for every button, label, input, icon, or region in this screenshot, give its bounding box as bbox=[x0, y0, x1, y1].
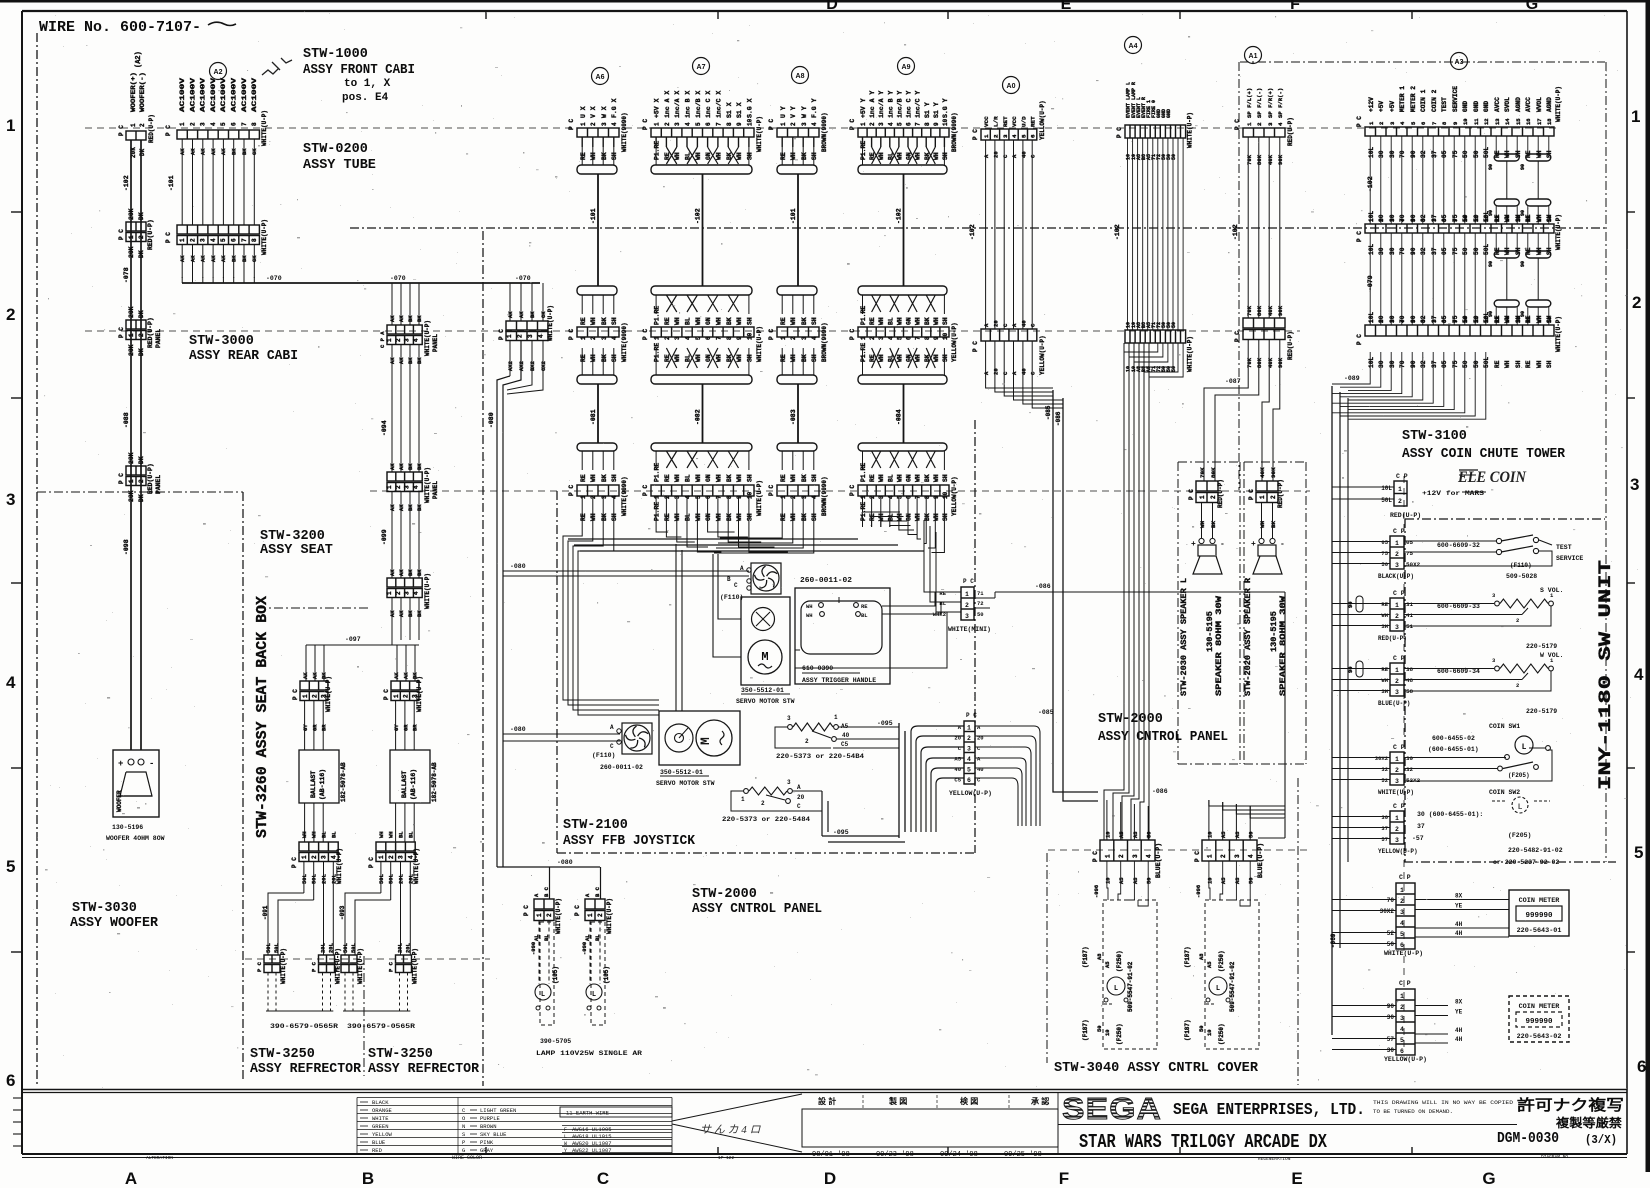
svg-text:30 (600-6455-01):: 30 (600-6455-01): bbox=[1417, 811, 1483, 818]
svg-text:(F187): (F187) bbox=[1184, 1019, 1191, 1041]
svg-text:5: 5 bbox=[1020, 134, 1027, 138]
svg-text:COIN METER: COIN METER bbox=[1519, 1003, 1561, 1011]
svg-text:1: 1 bbox=[1395, 667, 1399, 674]
svg-text:70: 70 bbox=[1387, 897, 1395, 904]
svg-text:182-5078-AB: 182-5078-AB bbox=[431, 762, 438, 802]
svg-text:BROWN: BROWN bbox=[480, 1123, 497, 1130]
svg-text:10: 10 bbox=[1462, 215, 1469, 222]
svg-text:6: 6 bbox=[1420, 122, 1427, 125]
svg-text:ASSY REAR CABI: ASSY REAR CABI bbox=[189, 349, 298, 364]
svg-text:-080: -080 bbox=[510, 563, 526, 570]
svg-text:SERVO MOTOR STW: SERVO MOTOR STW bbox=[736, 698, 795, 705]
svg-text:WH: WH bbox=[1259, 520, 1266, 528]
svg-text:ASSY WOOFER: ASSY WOOFER bbox=[70, 916, 159, 931]
svg-text:70: 70 bbox=[1399, 247, 1406, 255]
svg-text:32: 32 bbox=[1406, 766, 1414, 773]
svg-text:9: 9 bbox=[1452, 320, 1459, 323]
svg-text:BALLAST: BALLAST bbox=[310, 771, 317, 798]
svg-text:BK: BK bbox=[726, 474, 733, 482]
svg-text:RE: RE bbox=[1525, 360, 1532, 368]
svg-text:BK: BK bbox=[407, 569, 414, 576]
svg-text:(F187): (F187) bbox=[1082, 946, 1089, 968]
svg-text:05: 05 bbox=[1441, 360, 1448, 368]
svg-text:1: 1 bbox=[536, 913, 543, 917]
svg-text:YE: YE bbox=[1455, 1009, 1463, 1016]
svg-text:TEST: TEST bbox=[1556, 544, 1572, 551]
svg-text:WH: WH bbox=[915, 152, 922, 160]
svg-text:WHITE(9090): WHITE(9090) bbox=[621, 112, 628, 152]
svg-text:SPEAKER 8OHM 30W: SPEAKER 8OHM 30W bbox=[1214, 595, 1224, 696]
svg-text:AK: AK bbox=[389, 569, 396, 576]
svg-text:C P: C P bbox=[1399, 874, 1411, 881]
svg-text:BL: BL bbox=[330, 831, 337, 838]
svg-text:WH: WH bbox=[806, 612, 813, 619]
svg-text:GR: GR bbox=[402, 724, 409, 731]
svg-text:(F187): (F187) bbox=[1082, 1019, 1089, 1041]
svg-text:50: 50 bbox=[1096, 1025, 1103, 1032]
svg-text:+5V Y: +5V Y bbox=[860, 98, 867, 118]
svg-text:WHITE(U-P): WHITE(U-P) bbox=[261, 110, 268, 146]
svg-text:VCC: VCC bbox=[983, 116, 990, 127]
svg-text:+5V X: +5V X bbox=[654, 98, 661, 118]
svg-text:32: 32 bbox=[1420, 360, 1427, 368]
svg-text:(AB-116): (AB-116) bbox=[319, 769, 326, 800]
svg-text:RET: RET bbox=[1030, 116, 1037, 127]
svg-text:40: 40 bbox=[954, 766, 961, 773]
svg-text:GN: GN bbox=[906, 474, 913, 482]
svg-text:3: 3 bbox=[404, 591, 411, 595]
svg-text:WHITE(U-P): WHITE(U-P) bbox=[555, 898, 562, 934]
svg-text:50L: 50L bbox=[1483, 357, 1490, 368]
svg-text:DK: DK bbox=[138, 348, 145, 356]
svg-text:BK: BK bbox=[924, 474, 931, 482]
svg-text:P C: P C bbox=[498, 329, 505, 340]
svg-text:YELLOW(U-P): YELLOW(U-P) bbox=[951, 322, 958, 362]
svg-text:-102: -102 bbox=[1114, 224, 1121, 240]
svg-text:90: 90 bbox=[1520, 164, 1526, 170]
svg-text:32: 32 bbox=[1420, 247, 1427, 255]
svg-text:1P-122: 1P-122 bbox=[718, 1155, 735, 1161]
svg-text:DK: DK bbox=[138, 456, 145, 464]
svg-text:SH: SH bbox=[1546, 360, 1553, 368]
svg-text:P C: P C bbox=[768, 329, 775, 340]
svg-text:1: 1 bbox=[654, 122, 661, 126]
svg-text:1: 1 bbox=[386, 338, 393, 342]
svg-text:P C: P C bbox=[292, 689, 299, 700]
svg-text:BLACK: BLACK bbox=[372, 1099, 389, 1106]
svg-text:-069: -069 bbox=[1330, 933, 1337, 948]
svg-text:P C: P C bbox=[523, 905, 530, 916]
svg-text:A0: A0 bbox=[1007, 83, 1016, 90]
svg-text:A2: A2 bbox=[214, 69, 223, 76]
svg-text:50: 50 bbox=[1462, 247, 1469, 255]
svg-text:6: 6 bbox=[1420, 320, 1427, 323]
svg-text:STW-3000: STW-3000 bbox=[189, 334, 254, 349]
svg-text:220-5373 or 220-5484: 220-5373 or 220-5484 bbox=[722, 816, 810, 823]
svg-text:(105): (105) bbox=[552, 966, 559, 984]
svg-text:WH: WH bbox=[790, 317, 797, 325]
svg-text:WHITE(U-P): WHITE(U-P) bbox=[413, 848, 420, 884]
svg-text:1: 1 bbox=[393, 694, 400, 698]
svg-text:COIN SW2: COIN SW2 bbox=[1489, 789, 1520, 796]
svg-text:サ ん カ 4 ロ: サ ん カ 4 ロ bbox=[700, 1124, 761, 1136]
svg-text:20K: 20K bbox=[128, 490, 135, 502]
svg-text:ASSY CNTROL PANEL: ASSY CNTROL PANEL bbox=[692, 902, 822, 917]
svg-text:WH: WH bbox=[674, 354, 681, 362]
svg-text:220-5482-91-02: 220-5482-91-02 bbox=[1508, 847, 1563, 854]
svg-text:C P: C P bbox=[1399, 980, 1411, 987]
svg-text:BROWN(9090): BROWN(9090) bbox=[821, 476, 828, 516]
svg-text:P C: P C bbox=[849, 485, 856, 496]
svg-text:4: 4 bbox=[887, 495, 894, 499]
svg-text:W X: W X bbox=[601, 106, 608, 118]
svg-text:BK: BK bbox=[801, 317, 808, 325]
svg-text:390-6579-0565R: 390-6579-0565R bbox=[270, 1023, 339, 1030]
svg-text:GR: GR bbox=[311, 724, 318, 731]
svg-text:8: 8 bbox=[726, 122, 733, 126]
svg-text:E: E bbox=[1291, 1169, 1302, 1188]
svg-text:1: 1 bbox=[130, 123, 137, 127]
svg-text:7: 7 bbox=[715, 495, 722, 499]
svg-text:5: 5 bbox=[1400, 1037, 1404, 1044]
svg-text:WHITE(9090): WHITE(9090) bbox=[621, 476, 628, 516]
svg-text:20: 20 bbox=[797, 794, 805, 801]
svg-text:18: 18 bbox=[1546, 215, 1553, 222]
svg-text:-086: -086 bbox=[1152, 788, 1168, 795]
svg-text:20K: 20K bbox=[128, 246, 135, 258]
svg-text:AK: AK bbox=[518, 311, 525, 318]
svg-text:4: 4 bbox=[1011, 134, 1018, 138]
svg-text:6: 6 bbox=[705, 336, 712, 340]
svg-text:WH: WH bbox=[674, 317, 681, 325]
svg-text:RED(U-P): RED(U-P) bbox=[1217, 479, 1224, 508]
svg-text:THIS DRAWING WILL IN NO WAY BE: THIS DRAWING WILL IN NO WAY BE COPIED bbox=[1373, 1100, 1513, 1106]
svg-text:50L: 50L bbox=[1381, 497, 1392, 504]
svg-text:(F110): (F110) bbox=[720, 594, 743, 601]
svg-text:14: 14 bbox=[1504, 118, 1511, 125]
svg-text:WH: WH bbox=[933, 317, 940, 325]
svg-text:1: 1 bbox=[1400, 993, 1404, 1000]
svg-text:P C: P C bbox=[972, 129, 979, 140]
svg-text:AGND: AGND bbox=[1515, 97, 1522, 112]
svg-text:U X: U X bbox=[580, 106, 587, 118]
svg-text:-57: -57 bbox=[1412, 835, 1424, 842]
svg-text:12: 12 bbox=[1483, 118, 1490, 125]
svg-text:WH: WH bbox=[878, 317, 885, 325]
svg-text:S1 X: S1 X bbox=[736, 102, 743, 118]
svg-text:P C: P C bbox=[118, 473, 125, 484]
svg-text:A8: A8 bbox=[1096, 953, 1103, 960]
svg-text:BK: BK bbox=[726, 513, 733, 521]
svg-text:C: C bbox=[610, 743, 614, 750]
svg-text:2: 2 bbox=[590, 122, 597, 126]
svg-text:WHITE(U-P): WHITE(U-P) bbox=[325, 676, 332, 712]
svg-text:75: 75 bbox=[1381, 550, 1388, 557]
svg-text:AVCC: AVCC bbox=[1494, 97, 1501, 112]
svg-text:WH: WH bbox=[695, 513, 702, 521]
svg-text:5: 5 bbox=[1634, 843, 1643, 862]
svg-text:11: 11 bbox=[1473, 215, 1480, 222]
svg-text:3: 3 bbox=[321, 855, 328, 859]
svg-text:G: G bbox=[1526, 0, 1538, 13]
svg-text:WHITE(U-P): WHITE(U-P) bbox=[756, 326, 763, 362]
svg-text:SH: SH bbox=[611, 152, 618, 160]
svg-text:WH: WH bbox=[933, 513, 940, 521]
svg-text:WH: WH bbox=[933, 354, 940, 362]
svg-text:1: 1 bbox=[860, 122, 867, 126]
svg-text:BLUE(U-P): BLUE(U-P) bbox=[1257, 843, 1264, 878]
svg-text:RE: RE bbox=[869, 474, 876, 482]
svg-text:P C: P C bbox=[568, 329, 575, 340]
svg-text:50: 50 bbox=[1473, 247, 1480, 255]
svg-text:P C: P C bbox=[849, 119, 856, 130]
svg-text:1: 1 bbox=[128, 479, 135, 483]
svg-text:1: 1 bbox=[580, 336, 587, 340]
svg-text:30: 30 bbox=[1389, 360, 1396, 368]
svg-text:WH: WH bbox=[590, 513, 597, 521]
svg-text:1: 1 bbox=[580, 122, 587, 126]
svg-text:4: 4 bbox=[538, 334, 545, 338]
svg-text:B: B bbox=[362, 1169, 374, 1188]
svg-text:90K: 90K bbox=[1270, 467, 1277, 478]
svg-text:4: 4 bbox=[1400, 1026, 1404, 1033]
svg-text:09/23-'98: 09/23-'98 bbox=[876, 1151, 914, 1159]
svg-text:P C: P C bbox=[1188, 489, 1195, 500]
svg-text:12: 12 bbox=[1483, 215, 1490, 222]
svg-text:-091: -091 bbox=[262, 905, 269, 920]
svg-text:WH: WH bbox=[878, 474, 885, 482]
svg-text:SH: SH bbox=[746, 317, 753, 325]
svg-text:-088: -088 bbox=[123, 412, 130, 428]
svg-text:-087: -087 bbox=[1225, 378, 1241, 385]
svg-text:S VOL.: S VOL. bbox=[1540, 587, 1563, 594]
svg-text:220-5373 or 220-54B4: 220-5373 or 220-54B4 bbox=[776, 753, 864, 760]
svg-text:STW-3040 ASSY CNTRL COVER: STW-3040 ASSY CNTRL COVER bbox=[1054, 1061, 1259, 1076]
svg-text:18: 18 bbox=[1546, 118, 1553, 125]
svg-text:BL: BL bbox=[887, 513, 894, 521]
svg-text:BK: BK bbox=[601, 354, 608, 362]
svg-text:3: 3 bbox=[200, 238, 207, 242]
svg-text:2: 2 bbox=[992, 134, 999, 138]
svg-text:-: - bbox=[149, 759, 154, 769]
svg-text:WHITE(U-P): WHITE(U-P) bbox=[1384, 950, 1423, 957]
svg-text:WHITE(U-P): WHITE(U-P) bbox=[424, 573, 431, 609]
svg-text:P C: P C bbox=[1194, 851, 1201, 862]
svg-text:A8: A8 bbox=[1234, 877, 1241, 884]
svg-text:BL: BL bbox=[939, 600, 946, 607]
svg-text:WVOL: WVOL bbox=[1536, 97, 1543, 112]
svg-text:8: 8 bbox=[924, 495, 931, 499]
svg-text:inc A Y: inc A Y bbox=[869, 91, 876, 118]
svg-text:P C: P C bbox=[1356, 334, 1363, 345]
svg-text:2: 2 bbox=[1395, 613, 1399, 620]
svg-text:or 220-5237-92-02: or 220-5237-92-02 bbox=[1493, 859, 1559, 866]
svg-text:7: 7 bbox=[915, 495, 922, 499]
svg-text:S1 X: S1 X bbox=[726, 102, 733, 118]
svg-text:50: 50 bbox=[1473, 360, 1480, 368]
svg-text:+5V: +5V bbox=[1389, 101, 1396, 112]
svg-text:600-6455-02: 600-6455-02 bbox=[1432, 735, 1475, 742]
svg-text:3: 3 bbox=[965, 613, 969, 620]
svg-text:8X: 8X bbox=[1455, 999, 1463, 1006]
svg-text:GN: GN bbox=[705, 317, 712, 325]
svg-text:3: 3 bbox=[801, 336, 808, 340]
svg-text:P C: P C bbox=[118, 327, 125, 338]
svg-text:RED(U-P): RED(U-P) bbox=[1287, 331, 1294, 360]
svg-text:1: 1 bbox=[1398, 486, 1402, 493]
svg-text:W: W bbox=[564, 1141, 567, 1147]
svg-text:2: 2 bbox=[1270, 495, 1277, 499]
svg-text:BK: BK bbox=[1210, 520, 1217, 528]
svg-text:F.G Y: F.G Y bbox=[811, 98, 818, 118]
svg-text:STW-3260 ASSY SEAT BACK BOX: STW-3260 ASSY SEAT BACK BOX bbox=[254, 596, 271, 838]
svg-text:6: 6 bbox=[231, 122, 238, 126]
svg-text:-081: -081 bbox=[590, 409, 597, 425]
svg-text:13: 13 bbox=[1494, 215, 1501, 222]
svg-text:BL: BL bbox=[685, 474, 692, 482]
svg-text:4: 4 bbox=[811, 122, 818, 126]
svg-text:WHITE(MINI): WHITE(MINI) bbox=[948, 626, 991, 633]
svg-text:ASSY TRIGGER HANDLE: ASSY TRIGGER HANDLE bbox=[802, 677, 876, 684]
svg-text:7: 7 bbox=[1431, 219, 1438, 222]
svg-text:10: 10 bbox=[1206, 1029, 1213, 1036]
svg-text:90: 90 bbox=[1520, 261, 1526, 267]
svg-text:999990: 999990 bbox=[1525, 912, 1553, 920]
svg-text:P C: P C bbox=[311, 961, 318, 972]
svg-text:7: 7 bbox=[1431, 320, 1438, 323]
svg-text:WH: WH bbox=[1381, 677, 1388, 684]
svg-text:F: F bbox=[1290, 0, 1300, 13]
svg-text:20L: 20L bbox=[405, 942, 412, 953]
svg-text:10: 10 bbox=[1206, 877, 1213, 884]
svg-text:複製等厳禁: 複製等厳禁 bbox=[1555, 1115, 1622, 1130]
svg-text:BK: BK bbox=[416, 569, 423, 576]
svg-text:10: 10 bbox=[1104, 877, 1111, 884]
svg-text:AK: AK bbox=[389, 315, 396, 322]
svg-text:3: 3 bbox=[878, 336, 885, 340]
svg-text:8: 8 bbox=[726, 336, 733, 340]
svg-text:50: 50 bbox=[1171, 322, 1177, 328]
svg-text:2: 2 bbox=[138, 479, 145, 483]
svg-text:-078: -078 bbox=[123, 267, 130, 283]
svg-text:RE: RE bbox=[1494, 360, 1501, 368]
svg-text:RED(U-P): RED(U-P) bbox=[147, 463, 154, 494]
svg-text:-082: -082 bbox=[695, 409, 702, 425]
svg-text:LAMP 110V25W SINGLE AR: LAMP 110V25W SINGLE AR bbox=[536, 1050, 642, 1057]
svg-text:WHITE(U-P): WHITE(U-P) bbox=[424, 320, 431, 356]
svg-text:RE: RE bbox=[664, 513, 671, 521]
svg-text:40K: 40K bbox=[1267, 305, 1274, 316]
svg-text:BL: BL bbox=[861, 612, 868, 619]
svg-text:COIN 2: COIN 2 bbox=[1431, 89, 1438, 112]
svg-text:P C: P C bbox=[574, 905, 581, 916]
svg-text:ALTERATION: ALTERATION bbox=[146, 1155, 173, 1161]
svg-text:A5: A5 bbox=[1220, 877, 1227, 884]
svg-text:GREEN: GREEN bbox=[372, 1123, 389, 1130]
svg-text:RE: RE bbox=[780, 354, 787, 362]
svg-text:260-0011-02: 260-0011-02 bbox=[600, 764, 643, 771]
svg-text:SH: SH bbox=[611, 354, 618, 362]
svg-text:70K: 70K bbox=[1246, 305, 1253, 316]
svg-text:50: 50 bbox=[1381, 561, 1388, 568]
svg-text:COIN SW1: COIN SW1 bbox=[1489, 723, 1520, 730]
svg-text:SH: SH bbox=[746, 152, 753, 160]
svg-text:BK: BK bbox=[801, 474, 808, 482]
svg-text:DK: DK bbox=[139, 148, 146, 156]
svg-text:-: - bbox=[1280, 540, 1285, 549]
svg-text:GRAY: GRAY bbox=[480, 1147, 494, 1154]
svg-text:10: 10 bbox=[1462, 316, 1469, 323]
svg-text:3: 3 bbox=[1132, 854, 1139, 858]
svg-text:SERVICE: SERVICE bbox=[1556, 555, 1583, 562]
svg-text:WH: WH bbox=[674, 513, 681, 521]
svg-text:50: 50 bbox=[977, 611, 984, 618]
svg-text:5: 5 bbox=[6, 857, 15, 876]
svg-text:2: 2 bbox=[395, 591, 402, 595]
svg-text:SH: SH bbox=[811, 152, 818, 160]
svg-text:WH: WH bbox=[674, 474, 681, 482]
svg-text:16: 16 bbox=[1525, 316, 1532, 323]
svg-text:C P: C P bbox=[1393, 590, 1405, 597]
svg-text:WH: WH bbox=[790, 354, 797, 362]
svg-text:72: 72 bbox=[977, 600, 984, 607]
svg-text:1: 1 bbox=[1246, 122, 1253, 126]
svg-text:15: 15 bbox=[1515, 118, 1522, 125]
svg-text:A4: A4 bbox=[1129, 43, 1138, 50]
svg-text:SH: SH bbox=[811, 474, 818, 482]
svg-text:RED(U-P): RED(U-P) bbox=[1390, 512, 1421, 519]
svg-text:37: 37 bbox=[1431, 360, 1438, 368]
svg-text:WH: WH bbox=[896, 152, 903, 160]
svg-text:4: 4 bbox=[811, 495, 818, 499]
svg-text:STW-3200: STW-3200 bbox=[260, 529, 325, 544]
svg-text:A5: A5 bbox=[1118, 877, 1125, 884]
svg-text:S1 Y: S1 Y bbox=[933, 102, 940, 118]
svg-text:WHITE(U-P): WHITE(U-P) bbox=[756, 116, 763, 152]
svg-text:9: 9 bbox=[736, 122, 743, 126]
svg-text:1: 1 bbox=[1631, 107, 1640, 126]
svg-text:(F250): (F250) bbox=[1116, 1023, 1123, 1045]
svg-text:9: 9 bbox=[736, 495, 743, 499]
svg-text:ASSY FRONT CABI: ASSY FRONT CABI bbox=[303, 63, 415, 78]
svg-text:STW-2000: STW-2000 bbox=[1098, 712, 1163, 727]
svg-text:1: 1 bbox=[1400, 887, 1404, 894]
svg-text:5: 5 bbox=[896, 336, 903, 340]
svg-text:509-5547-91-02: 509-5547-91-02 bbox=[1229, 961, 1236, 1012]
svg-text:3: 3 bbox=[674, 122, 681, 126]
svg-text:YELLOW(U-P): YELLOW(U-P) bbox=[1039, 100, 1046, 140]
svg-text:32: 32 bbox=[1420, 150, 1427, 158]
svg-text:3: 3 bbox=[801, 495, 808, 499]
svg-text:BK: BK bbox=[1270, 520, 1277, 528]
svg-text:2: 2 bbox=[1378, 320, 1385, 323]
svg-text:1: 1 bbox=[179, 122, 186, 126]
svg-text:75: 75 bbox=[1406, 550, 1414, 557]
svg-text:3: 3 bbox=[398, 855, 405, 859]
svg-text:RE: RE bbox=[939, 590, 946, 597]
svg-text:WH: WH bbox=[790, 474, 797, 482]
svg-text:50: 50 bbox=[1473, 150, 1480, 158]
svg-text:50: 50 bbox=[1248, 877, 1255, 884]
svg-text:BALLAST: BALLAST bbox=[401, 771, 408, 798]
svg-text:50L: 50L bbox=[265, 942, 272, 953]
svg-text:11: 11 bbox=[1473, 118, 1480, 125]
svg-text:P1.RE: P1.RE bbox=[860, 141, 867, 160]
svg-text:-102: -102 bbox=[1232, 224, 1239, 240]
svg-text:L: L bbox=[1114, 985, 1118, 993]
svg-text:7: 7 bbox=[915, 336, 922, 340]
svg-text:20K: 20K bbox=[128, 452, 135, 464]
